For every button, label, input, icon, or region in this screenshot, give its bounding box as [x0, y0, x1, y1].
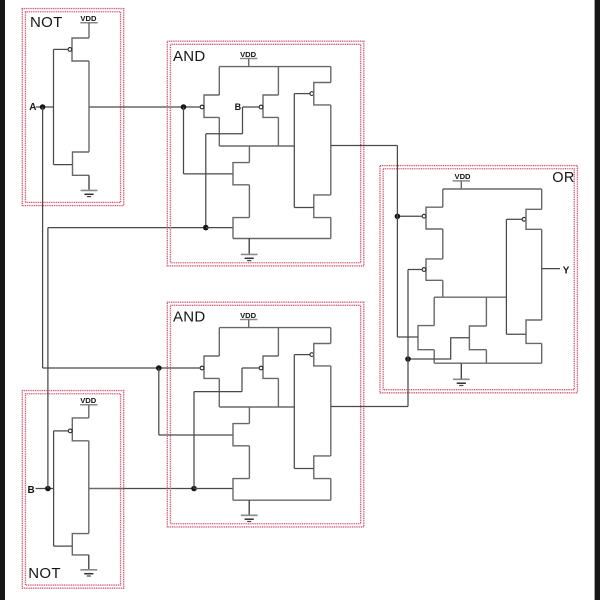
- wire AND1 A branch vertical: [183, 107, 185, 174]
- wire net Bbar rise: [193, 392, 195, 489]
- nmos Q22 source stem: [541, 343, 543, 363]
- wire net Bbar to PMOS: [241, 368, 243, 392]
- pmos Q7 drain stem: [330, 67, 332, 83]
- wire output Y stub: [542, 268, 560, 270]
- pmos Q4 body (AND1 B-input): [263, 95, 278, 117]
- NOT2 dashed block border: [22, 391, 123, 589]
- AND1 dashed block border: [167, 41, 363, 266]
- nmos Q20 body (OR): [469, 326, 486, 350]
- nmos Q5 body (AND1): [233, 163, 249, 185]
- pmos Q4 drain stem: [277, 67, 279, 95]
- svg-text:NOT: NOT: [28, 565, 61, 582]
- pmos Q17 drain stem: [442, 189, 444, 207]
- wire input B stub: [36, 488, 54, 490]
- svg-text:VDD: VDD: [240, 311, 257, 320]
- wire AND2 inverter output vertical: [330, 366, 332, 456]
- wire Q16 gate stub: [294, 468, 314, 470]
- wire AND2 ground rail: [233, 499, 331, 501]
- wire Q20 gate feed: [408, 338, 469, 359]
- wire Q10 gate stub: [54, 545, 73, 547]
- pmos Q3 body (AND1 A-input): [204, 95, 219, 117]
- junction dot AND2 input Bbar: [191, 486, 197, 492]
- nmos Q19 source stem: [433, 350, 435, 364]
- wire AND1 output to OR: [331, 145, 398, 147]
- wire Q13 gate feed: [159, 434, 233, 436]
- pmos Q18 body (OR input2): [426, 259, 443, 280]
- wire Q18 gate stub: [408, 269, 422, 271]
- pmos Q18 source stem: [442, 280, 444, 297]
- wire Q3 gate stub: [184, 106, 201, 108]
- nmos Q20 source stem: [485, 350, 487, 364]
- wire NOT2 output to AND2: [124, 488, 194, 490]
- nmos Q22 body (OR inverter): [526, 320, 542, 343]
- junction dot net B at Q6 gate: [203, 225, 209, 231]
- wire Q5-Q6 series stem: [248, 185, 250, 218]
- wire Q21 gate stub: [506, 218, 522, 220]
- pmos Q7 gate bubble: [310, 92, 314, 96]
- wire Q12 gate stub: [242, 367, 259, 369]
- nmos Q13 body (AND2): [233, 424, 249, 446]
- pmos Q9 body (NOT2): [72, 418, 89, 441]
- pmos Q15 drain stem: [330, 328, 332, 344]
- wire Q7 gate stub: [294, 93, 310, 95]
- wire AND1 inverter input vertical: [293, 94, 295, 208]
- OR dashed block border: [380, 166, 577, 393]
- wire OR input1 vertical: [396, 146, 398, 338]
- nmos Q8 source stem: [330, 218, 332, 239]
- ground NOT2: [88, 555, 90, 570]
- junction dot node A: [40, 104, 46, 110]
- ground NOT1: [88, 175, 90, 190]
- wire Q5 gate feed: [184, 173, 234, 175]
- svg-text:A: A: [29, 102, 36, 113]
- AND2 dashed block border: [167, 302, 363, 527]
- pmos Q17 body (OR input1): [426, 207, 443, 229]
- wire NOT2 gate vertical: [53, 431, 55, 546]
- wire Q9 gate stub: [54, 430, 69, 432]
- pmos Q4 source stem: [277, 117, 279, 146]
- wire OR ground rail: [434, 362, 542, 364]
- wire AND1 NMOS drain tap: [248, 146, 250, 163]
- pmos Q18 gate bubble: [422, 268, 426, 272]
- wire AND1 inverter output vertical: [330, 105, 332, 195]
- wire net Bbar jog: [194, 391, 242, 393]
- wire AND2 VDD rail: [219, 327, 330, 329]
- nmos Q10 body (NOT2): [72, 534, 89, 555]
- svg-text:VDD: VDD: [80, 396, 97, 405]
- wire Q11 gate stub: [159, 367, 200, 369]
- wire net B horizontal run: [48, 227, 206, 229]
- pmos Q21 body (OR inverter): [526, 209, 542, 229]
- wire AND1 ground rail: [233, 238, 331, 240]
- svg-text:B: B: [235, 102, 242, 112]
- nmos Q8 body (AND1 inverter): [314, 195, 331, 218]
- pmos Q3 gate bubble: [200, 105, 204, 109]
- pmos Q11 gate bubble: [200, 366, 204, 370]
- pmos Q12 body (AND2 Bbar-input): [263, 356, 278, 378]
- nmos Q16 body (AND2 inverter): [314, 456, 331, 479]
- pmos Q21 drain stem: [541, 189, 543, 209]
- pmos Q1 gate bubble: [68, 48, 72, 52]
- ground OR: [460, 363, 462, 379]
- wire OR inverter output vertical: [541, 229, 543, 320]
- wire NOT1 output vertical: [88, 61, 90, 152]
- wire NOT2 output tap: [89, 488, 124, 490]
- pmos Q12 drain stem: [277, 328, 279, 356]
- pmos Q15 gate bubble: [310, 353, 314, 357]
- ground AND2: [248, 500, 250, 515]
- svg-text:VDD: VDD: [455, 172, 472, 181]
- frame right bar: [595, 0, 600, 600]
- svg-text:AND: AND: [173, 48, 206, 65]
- pmos Q17 gate bubble: [422, 214, 426, 218]
- pmos Q9 gate bubble: [68, 429, 72, 433]
- pmos Q3 drain stem: [218, 67, 220, 95]
- nmos Q20 drain stem: [485, 297, 487, 326]
- wire AND1 NAND output node: [219, 145, 294, 147]
- svg-text:NOT: NOT: [30, 14, 63, 31]
- wire AND2 NMOS drain tap: [248, 407, 250, 424]
- nmos Q2 body (NOT1): [73, 152, 90, 175]
- wire AND2 output to OR: [331, 406, 408, 408]
- wire Q22 gate stub: [506, 333, 526, 335]
- wire Q14 gate stub: [194, 488, 233, 490]
- pmos Q15 body (AND2 inverter): [314, 344, 331, 366]
- pmos Q12 source stem: [277, 378, 279, 407]
- wire Q6 gate stub: [206, 227, 233, 229]
- wire NOT1 gate vertical: [53, 49, 55, 164]
- wire net B jog: [206, 133, 243, 135]
- frame left bar: [0, 0, 5, 600]
- svg-text:OR: OR: [552, 170, 574, 186]
- svg-text:VDD: VDD: [80, 14, 97, 23]
- wire NOT2 output vertical: [88, 441, 90, 534]
- nmos Q19 body (OR): [418, 326, 434, 350]
- wire net A horizontal run: [43, 367, 159, 369]
- wire Q2 gate stub: [54, 164, 73, 166]
- svg-text:Y: Y: [563, 266, 570, 277]
- wire AND1 VDD rail: [219, 66, 330, 68]
- pmos Q3 source stem: [218, 117, 220, 146]
- pmos Q11 body (AND2 A-input): [204, 356, 219, 378]
- nmos Q14 body (AND2): [233, 479, 249, 501]
- junction dot AND1 input A: [181, 104, 187, 110]
- svg-text:AND: AND: [173, 309, 206, 326]
- pmos Q12 gate bubble: [259, 366, 263, 370]
- wire net A vertical run: [42, 107, 44, 368]
- wire NOT1 output to AND1: [124, 106, 184, 108]
- wire OR NOR output node: [434, 296, 506, 298]
- wire net B drop: [242, 107, 244, 134]
- pmos Q21 gate bubble: [522, 217, 526, 221]
- junction dot node B: [45, 486, 51, 492]
- ground AND1: [248, 239, 250, 255]
- wire OR inverter input vertical: [505, 219, 507, 334]
- svg-text:VDD: VDD: [240, 50, 257, 59]
- svg-text:B: B: [28, 485, 35, 496]
- wire Q17-Q18 series stem: [442, 229, 444, 259]
- wire Q15 gate stub: [294, 354, 310, 356]
- wire Q17 gate stub: [397, 215, 422, 217]
- wire Q13-Q14 series stem: [248, 446, 250, 479]
- junction dot OR input2: [405, 356, 411, 362]
- pmos Q11 drain stem: [218, 328, 220, 356]
- pmos Q7 body (AND1 inverter): [314, 83, 331, 105]
- wire AND2 A branch vertical: [158, 368, 160, 435]
- wire OR input2 vertical: [407, 270, 409, 407]
- wire input A stub: [36, 106, 54, 108]
- wire net B vertical run: [47, 228, 49, 489]
- wire Q8 gate stub: [294, 207, 314, 209]
- nmos Q6 body (AND1): [233, 218, 249, 239]
- wire Q19 gate stub: [397, 336, 418, 338]
- wire NOT1 output tap: [89, 106, 124, 108]
- wire AND2 NAND output node: [219, 406, 294, 408]
- NOT1 dashed block border: [22, 9, 123, 206]
- wire net B down to NMOS: [205, 134, 207, 228]
- wire AND2 inverter input vertical: [293, 355, 295, 469]
- wire Q1 gate stub: [54, 48, 68, 50]
- nmos Q19 drain stem: [433, 297, 435, 325]
- nmos Q16 source stem: [330, 479, 332, 501]
- junction dot AND2 input A: [156, 365, 162, 371]
- pmos Q4 gate bubble: [259, 105, 263, 109]
- pmos Q1 body (NOT1): [72, 38, 89, 61]
- wire OR VDD rail: [443, 188, 542, 190]
- wire Q4 gate stub: [243, 106, 260, 108]
- pmos Q11 source stem: [218, 378, 220, 407]
- junction dot OR input1: [395, 214, 401, 220]
